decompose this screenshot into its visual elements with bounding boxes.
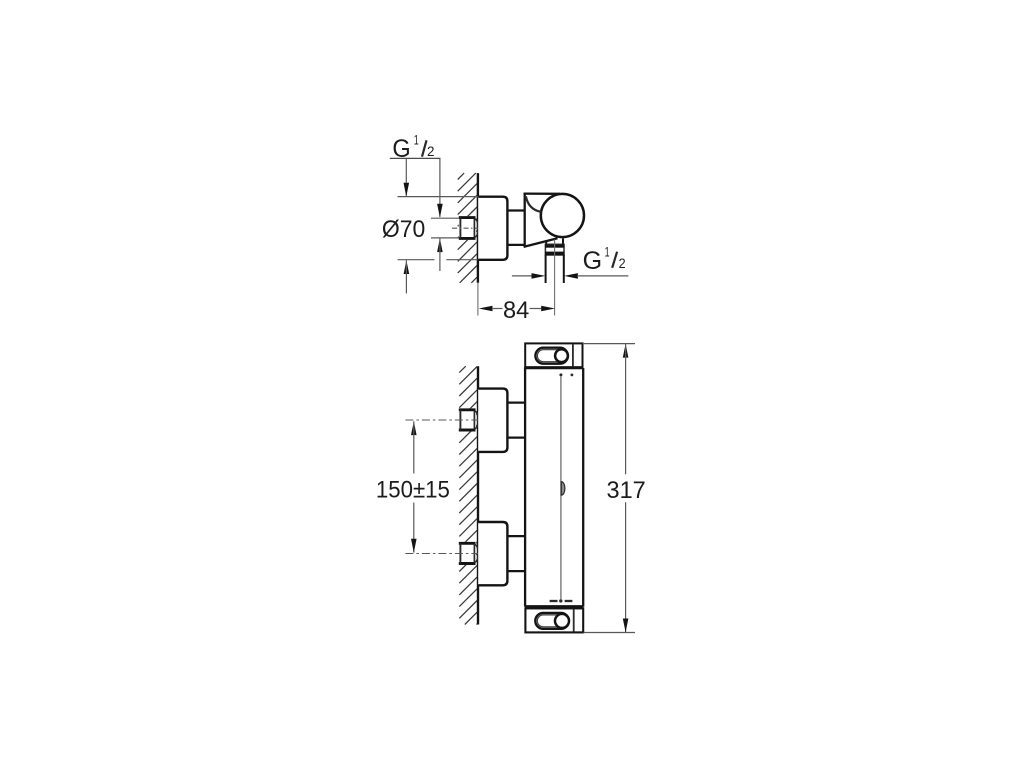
bottom view: centerline dot right	[571, 374, 574, 377]
top view: wall face line	[477, 173, 479, 283]
label G1/2 (top): underline	[390, 157, 441, 159]
top view: O70 lower arrow stem	[405, 260, 407, 293]
dim G1/2 (right): right line	[577, 275, 628, 277]
dim 317: top extension line	[583, 343, 635, 345]
bottom view: top cap outline	[525, 343, 582, 367]
top view: wall escutcheon flange O70	[478, 197, 507, 260]
label G1/2 (top): fraction slash	[422, 140, 427, 156]
bottom view: wall face line	[477, 366, 479, 624]
dim 150±15: upper stem	[413, 421, 415, 473]
dim 84: left line	[492, 308, 503, 310]
dim 150±15: lower stem	[413, 503, 415, 553]
top view: G1/2 lower arrow	[437, 238, 443, 252]
top view: bracket top edge	[524, 192, 560, 194]
svg-text:1: 1	[605, 244, 610, 260]
dim 84: left arrow	[479, 306, 493, 312]
svg-text:317: 317	[607, 477, 646, 504]
dim 317: upper stem	[625, 344, 627, 474]
top view: bracket bottom slanted edge	[524, 238, 558, 247]
bottom view: bottom cap outlet stadium	[535, 613, 569, 629]
dim 84: right line	[530, 308, 543, 310]
top view: hose stub centerline	[554, 240, 556, 316]
svg-text:Ø70: Ø70	[382, 216, 425, 243]
top view: hose nut lower band	[545, 252, 565, 255]
dim 84: right arrow	[541, 306, 555, 312]
dim G1/2 (right): left line	[512, 275, 533, 277]
top view: hose stub right line	[563, 255, 565, 283]
top view: flange bottom edge extension line (O70 lower) left part	[398, 259, 435, 261]
top view: union bottom edge extension line (G1/2 lower)	[431, 237, 459, 239]
top view: neck between flange and bracket upper line	[507, 209, 525, 211]
bottom view: lower wall union square	[459, 542, 476, 565]
svg-text:2: 2	[619, 255, 626, 271]
top view: O70 upper arrow stem	[405, 159, 407, 196]
top view: flange top edge extension line (O70 upper)	[398, 196, 479, 198]
bottom view: lower stub top line	[507, 535, 525, 537]
dim 150±15: upper arrow	[411, 421, 417, 435]
top view: flange bottom edge extension line right part	[446, 259, 477, 261]
bottom view: lower flange	[478, 522, 507, 585]
svg-text:G: G	[583, 247, 603, 275]
top view: hose stub left line	[545, 255, 547, 283]
label G1/2 (right): fraction slash	[612, 252, 617, 268]
dim G1/2 (right): right arrow	[564, 273, 578, 279]
top view: wall face extension line down to 84 dim	[477, 283, 479, 316]
bottom view: top cap divider	[572, 344, 574, 366]
top view: G1/2 upper arrow	[437, 204, 443, 218]
dim G1/2 (right): left arrow	[532, 273, 546, 279]
bottom view: bottom cap outline	[525, 608, 583, 632]
bottom view: lower union dash-dot centerline	[405, 553, 478, 555]
top view: wall union square G1/2	[459, 216, 476, 240]
top view: hose nut outline	[545, 244, 564, 255]
bottom view: upper union dash-dot centerline	[405, 419, 478, 421]
top view: O70 lower arrow	[404, 260, 410, 274]
top view: outlet neck right line	[562, 238, 564, 244]
bottom view: bar inner centerline	[560, 376, 562, 599]
bottom view: bottom mark dot	[559, 599, 562, 602]
svg-text:1: 1	[414, 132, 419, 148]
top view: bracket left edge	[524, 193, 526, 247]
top view: G1/2 lower arrow stem	[439, 238, 441, 271]
bottom view: wall hatching	[459, 366, 465, 372]
bottom view: bar bottom thick band	[525, 605, 584, 608]
bottom view: upper flange	[478, 389, 507, 452]
bottom view: upper wall union square	[459, 408, 476, 431]
bottom view: upper stub top line	[507, 402, 525, 404]
top view: hose nut upper band	[545, 245, 564, 248]
svg-text:2: 2	[427, 143, 435, 159]
bottom view: centerline dot left	[559, 373, 562, 376]
bottom view: bottom mark right dash	[565, 600, 573, 602]
top view: union square dash-dot centerline	[452, 227, 478, 229]
dim 150±15: lower arrow	[411, 539, 417, 553]
bottom view: bottom cap divider	[573, 609, 575, 631]
top view: outlet neck left line	[545, 241, 547, 245]
bottom view: bottom mark left dash	[550, 600, 558, 602]
bottom view: bar left edge	[524, 368, 526, 607]
top view: wall hatching	[458, 173, 464, 179]
top view: union top edge extension line (G1/2 upper)	[431, 217, 459, 219]
bottom view: lower stub bottom line	[507, 570, 525, 572]
bottom view: top cap thick bottom band	[524, 366, 583, 369]
bottom view: top cap outlet stadium	[535, 348, 568, 364]
dim 317: top arrow	[623, 344, 629, 358]
top view: bracket concave fillet	[526, 196, 541, 212]
dim 317: bottom extension line	[583, 632, 635, 634]
dim 317: bottom arrow	[623, 619, 629, 633]
svg-text:84: 84	[503, 297, 529, 324]
top view: O70 upper arrow	[404, 183, 410, 197]
dim 317: lower stem	[625, 502, 627, 632]
top view: neck between flange and bracket lower line	[507, 244, 525, 246]
bottom view: mid knob half-ellipse	[561, 482, 565, 496]
top view: thermostat handle circle	[541, 194, 584, 237]
svg-text:150±15: 150±15	[376, 476, 450, 503]
bottom view: bar right edge	[582, 368, 584, 607]
bottom view: upper stub bottom line	[507, 437, 525, 439]
top view: G1/2 upper arrow stem	[439, 159, 441, 217]
